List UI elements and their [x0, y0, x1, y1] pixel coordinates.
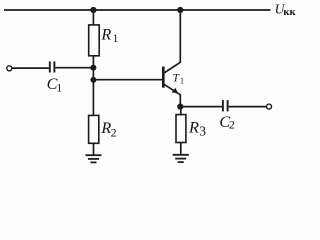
resistor R2	[89, 115, 99, 143]
wire: R2 bottom to ground	[93, 143, 95, 155]
transistor T1	[163, 10, 180, 107]
node: emitter junction	[177, 104, 183, 110]
wire: top supply rail	[4, 9, 271, 11]
label Ukk	[275, 2, 297, 19]
label C1	[47, 75, 63, 94]
wire: input to C1	[12, 67, 49, 69]
wire: R3 bottom to ground	[180, 143, 182, 155]
svg-text:1: 1	[56, 82, 62, 94]
svg-text:кк: кк	[283, 7, 296, 18]
label T1	[173, 72, 185, 85]
capacitor C2	[223, 100, 228, 111]
label R3 (Re)	[188, 118, 206, 138]
input terminal	[7, 66, 12, 71]
node: C1 junction	[90, 65, 96, 71]
ground (below R3)	[173, 155, 189, 162]
wire: emitter node down to R3	[180, 107, 182, 115]
label C2	[219, 113, 235, 131]
resistor R1	[89, 25, 100, 56]
wire: base node to transistor base	[93, 79, 162, 81]
wire: R1 bottom to base node	[92, 56, 94, 80]
svg-text:1: 1	[113, 33, 119, 45]
resistor R3 (Re)	[176, 115, 186, 143]
wire: base node down to R2	[92, 80, 94, 116]
svg-text:3: 3	[199, 123, 206, 138]
wire: C2 to output terminal	[229, 106, 267, 108]
wire: emitter node to C2	[180, 106, 222, 108]
wire: C1 to base node	[55, 67, 93, 69]
node: rail to R1 junction	[90, 7, 96, 13]
ground (below R2)	[86, 155, 102, 162]
svg-text:2: 2	[229, 117, 235, 131]
label R1	[100, 26, 118, 45]
node: base junction	[90, 77, 96, 83]
output terminal	[267, 104, 272, 109]
svg-text:R: R	[100, 26, 111, 44]
wire: rail down to R1	[92, 10, 94, 25]
svg-text:R: R	[188, 118, 199, 136]
node: rail to collector junction	[177, 7, 183, 13]
svg-text:2: 2	[111, 125, 117, 139]
label R2	[100, 119, 116, 139]
capacitor C1	[50, 61, 55, 72]
svg-text:1: 1	[180, 76, 184, 86]
